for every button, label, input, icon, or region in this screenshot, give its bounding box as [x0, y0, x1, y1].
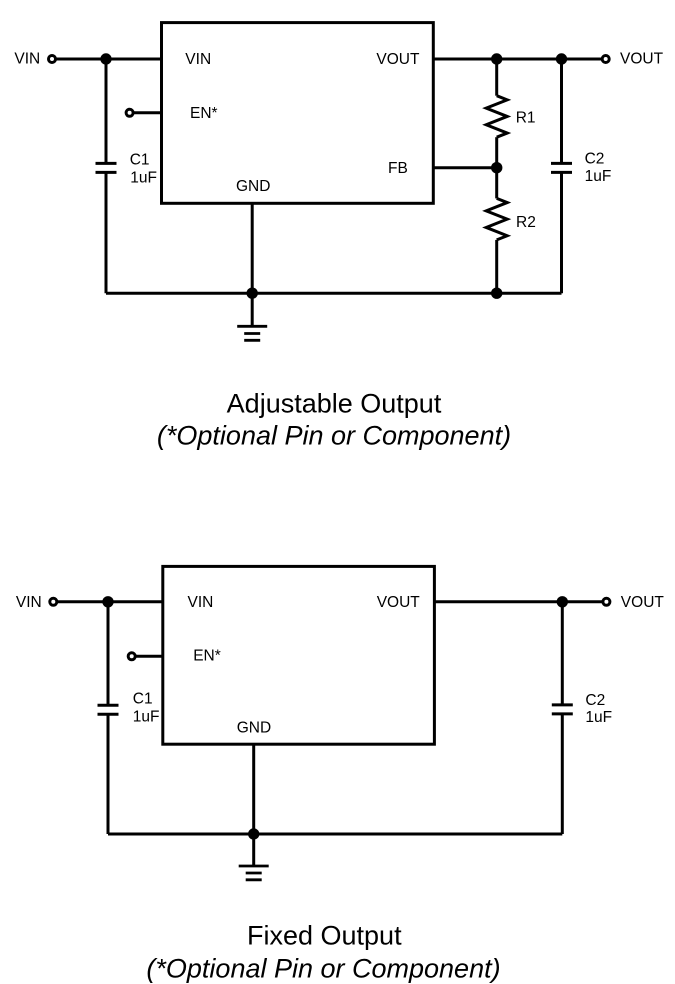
svg-text:Adjustable Output: Adjustable Output [227, 388, 442, 418]
svg-text:1uF: 1uF [133, 709, 160, 726]
svg-text:EN*: EN* [190, 105, 218, 122]
svg-text:C1: C1 [130, 152, 150, 169]
svg-text:VOUT: VOUT [621, 594, 665, 611]
svg-text:GND: GND [237, 720, 271, 737]
svg-text:EN*: EN* [193, 648, 221, 665]
svg-text:1uF: 1uF [585, 709, 612, 726]
svg-text:VOUT: VOUT [620, 51, 664, 68]
svg-text:VIN: VIN [185, 51, 211, 68]
svg-text:1uF: 1uF [585, 168, 612, 185]
svg-text:C2: C2 [585, 692, 605, 709]
svg-text:R1: R1 [516, 109, 536, 126]
svg-text:C1: C1 [133, 691, 153, 708]
svg-text:(*Optional Pin or Component): (*Optional Pin or Component) [146, 953, 500, 983]
svg-text:GND: GND [236, 178, 270, 195]
svg-text:Fixed Output: Fixed Output [247, 921, 402, 951]
svg-text:VIN: VIN [188, 594, 214, 611]
svg-text:VIN: VIN [14, 51, 40, 68]
svg-text:FB: FB [388, 160, 408, 177]
svg-text:(*Optional Pin or Component): (*Optional Pin or Component) [157, 421, 511, 451]
svg-text:R2: R2 [516, 214, 536, 231]
svg-text:VIN: VIN [16, 594, 42, 611]
svg-text:VOUT: VOUT [376, 51, 420, 68]
svg-text:C2: C2 [585, 150, 605, 167]
svg-text:VOUT: VOUT [377, 594, 421, 611]
svg-text:1uF: 1uF [130, 170, 157, 187]
